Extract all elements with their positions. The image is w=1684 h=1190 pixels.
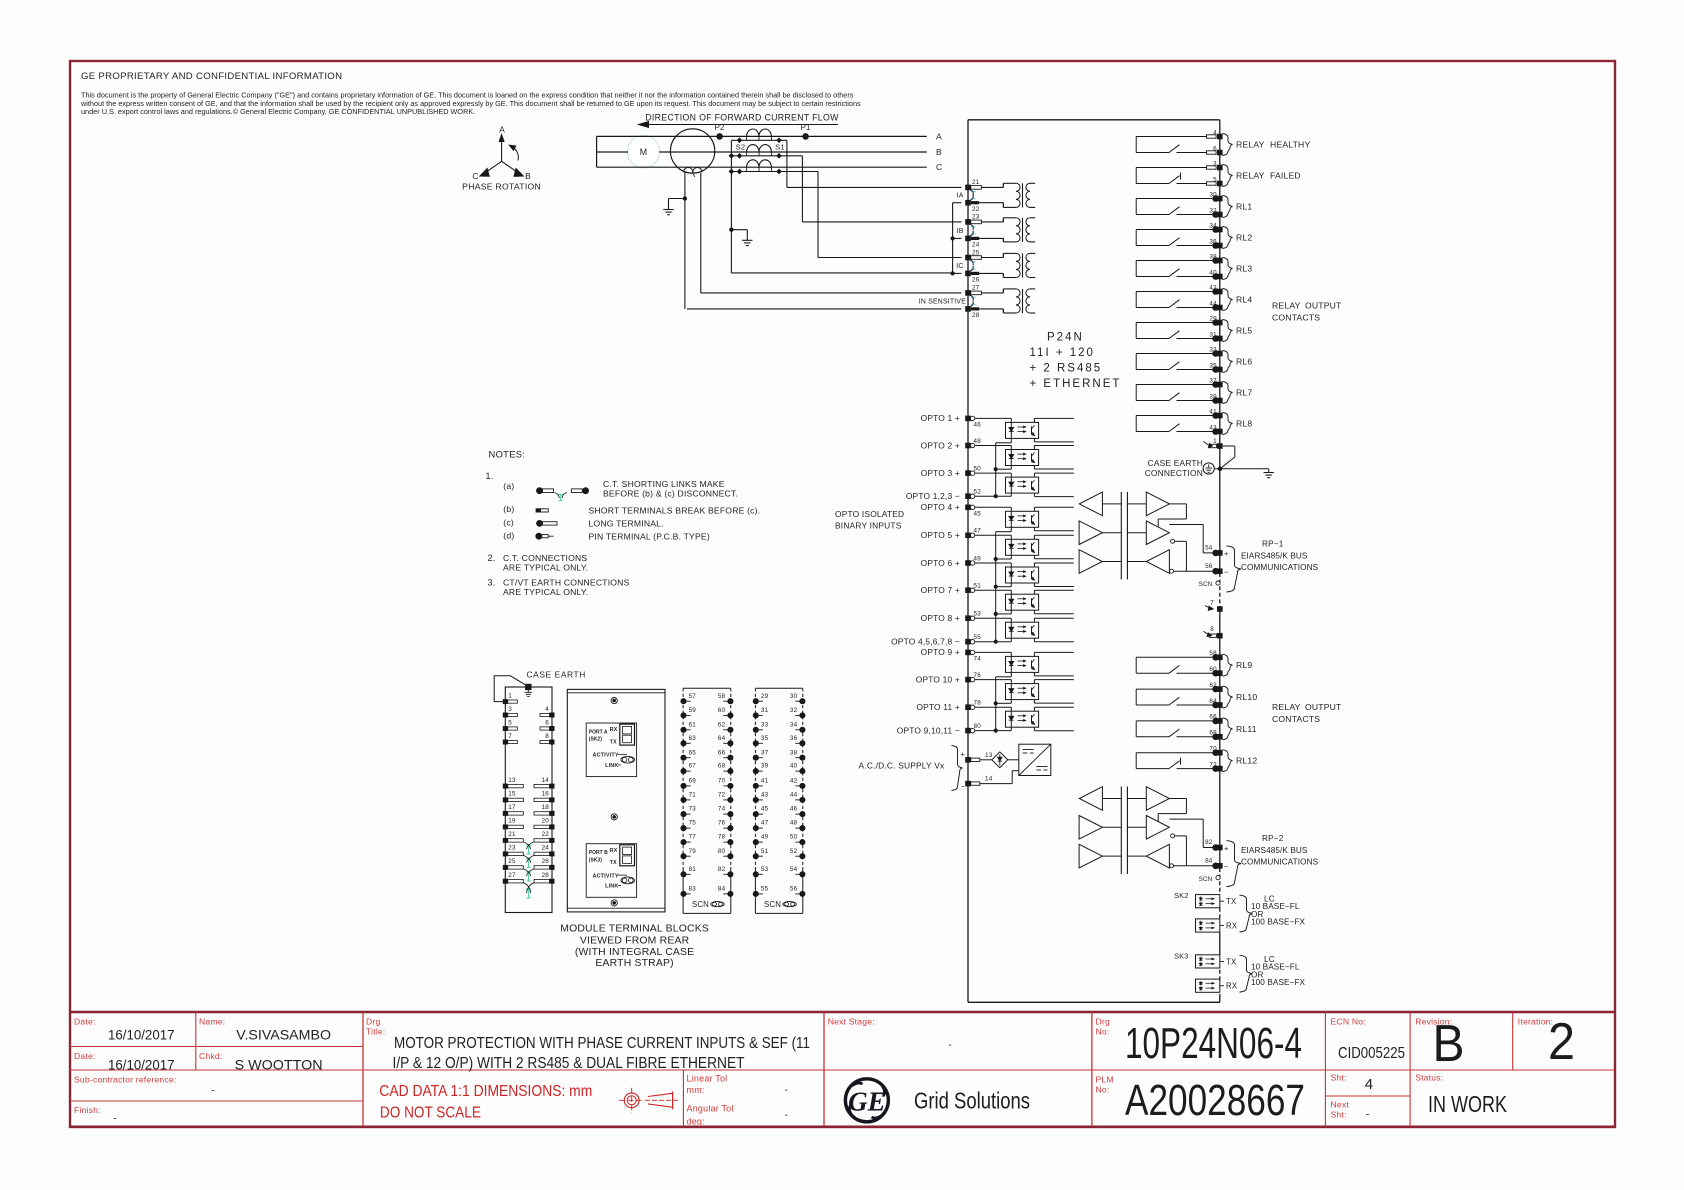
svg-text:Linear Tol: Linear Tol xyxy=(687,1074,728,1084)
svg-text:64: 64 xyxy=(718,735,726,742)
svg-text:56: 56 xyxy=(1205,563,1213,570)
terminal 53 xyxy=(965,615,971,621)
svg-text:48: 48 xyxy=(974,438,982,445)
svg-text:4: 4 xyxy=(1213,129,1217,136)
svg-text:EIARS485/K BUS: EIARS485/K BUS xyxy=(1241,552,1308,561)
panel screw 1 xyxy=(611,698,617,704)
svg-text:-: - xyxy=(113,1114,117,1125)
svg-text:BEFORE (b) & (c) DISCONNECT.: BEFORE (b) & (c) DISCONNECT. xyxy=(603,488,738,498)
svg-text:23: 23 xyxy=(972,214,980,221)
wire IN b xyxy=(687,308,962,310)
junction core CT earth xyxy=(683,197,686,200)
svg-text:6: 6 xyxy=(1213,145,1217,152)
svg-text:C.T. CONNECTIONS: C.T. CONNECTIONS xyxy=(503,553,587,563)
contact RELAY HEALTHY (4/6) xyxy=(1135,137,1137,153)
rear pin 13 xyxy=(503,784,508,789)
terminal 49 xyxy=(965,560,971,566)
svg-text:82: 82 xyxy=(718,866,726,873)
svg-text:BINARY INPUTS: BINARY INPUTS xyxy=(835,521,902,531)
rear pin 5 xyxy=(503,726,508,731)
svg-text:EARTH STRAP): EARTH STRAP) xyxy=(595,958,673,969)
CT transformer T1 xyxy=(1002,183,1004,187)
svg-text:71: 71 xyxy=(689,792,697,799)
svg-text:VIEWED FROM REAR: VIEWED FROM REAR xyxy=(580,936,690,947)
svg-text:P2: P2 xyxy=(715,123,725,132)
svg-text:3.: 3. xyxy=(488,578,496,588)
opto bank2 negative bus xyxy=(1010,527,1012,531)
svg-text:20: 20 xyxy=(542,818,550,825)
opto bank3 negative bus xyxy=(1010,672,1012,676)
svg-text:31: 31 xyxy=(761,707,769,714)
CT transformer T3 xyxy=(1002,253,1004,257)
svg-text:28: 28 xyxy=(542,872,550,879)
svg-text:(SK2): (SK2) xyxy=(589,737,602,743)
T4 lead steps xyxy=(1002,289,1004,293)
svg-text:62: 62 xyxy=(718,721,726,728)
svg-text:56: 56 xyxy=(790,886,798,893)
svg-text:OPTO 10 +: OPTO 10 + xyxy=(916,674,960,684)
svg-text:7: 7 xyxy=(1210,600,1214,607)
svg-text:53: 53 xyxy=(761,866,769,873)
CT C secondary xyxy=(731,171,818,173)
svg-text:35: 35 xyxy=(1209,362,1217,369)
svg-text:11I + 120: 11I + 120 xyxy=(1030,347,1095,359)
rear pin 3 xyxy=(503,713,508,718)
svg-text:30: 30 xyxy=(1209,191,1217,198)
terminal 26 xyxy=(965,271,971,277)
junction return 26 xyxy=(951,272,954,275)
supply brace xyxy=(952,746,963,791)
optocoupler OPTO5 xyxy=(975,534,1011,536)
svg-text:68: 68 xyxy=(718,763,726,770)
CT shorting link IA xyxy=(972,192,974,199)
svg-text:C: C xyxy=(472,171,478,181)
svg-text:53: 53 xyxy=(974,611,982,618)
svg-text:21: 21 xyxy=(972,179,980,186)
PORT A (SK2) xyxy=(586,723,636,777)
svg-text:MOTOR PROTECTION WITH PHASE CU: MOTOR PROTECTION WITH PHASE CURRENT INPU… xyxy=(394,1035,810,1052)
svg-text:1.: 1. xyxy=(486,471,494,481)
svg-text:24: 24 xyxy=(542,845,550,852)
svg-text:Date:: Date: xyxy=(74,1017,96,1027)
svg-text:64: 64 xyxy=(1209,698,1217,705)
terminal 45 xyxy=(965,505,971,511)
svg-text:RELAY HEALTHY: RELAY HEALTHY xyxy=(1236,140,1310,150)
optocoupler OPTO6 xyxy=(975,562,1011,564)
CT shorting link IN SENSITIVE xyxy=(972,297,974,304)
optocoupler OPTO1 xyxy=(975,417,1011,419)
svg-text:(d): (d) xyxy=(503,531,514,541)
svg-text:ACTIVITY: ACTIVITY xyxy=(593,873,619,879)
wire phase A xyxy=(597,135,927,137)
svg-text:7: 7 xyxy=(508,733,512,740)
motor feeder bus xyxy=(596,136,598,167)
svg-text:-: - xyxy=(962,781,965,791)
optocoupler OPTO9 xyxy=(975,651,1011,653)
terminal 55 xyxy=(965,639,971,645)
svg-text:P24N: P24N xyxy=(1047,332,1084,344)
rear pin 4 xyxy=(550,713,555,718)
terminal 22 xyxy=(965,200,971,206)
svg-text:COMMUNICATIONS: COMMUNICATIONS xyxy=(1241,563,1319,572)
svg-text:LONG TERMINAL.: LONG TERMINAL. xyxy=(589,519,664,529)
svg-text:80: 80 xyxy=(974,723,982,730)
svg-text:14: 14 xyxy=(542,777,550,784)
svg-text:30: 30 xyxy=(790,693,798,700)
svg-text:65: 65 xyxy=(689,749,697,756)
svg-text:CASE EARTH: CASE EARTH xyxy=(1148,458,1203,468)
marker P1 xyxy=(803,134,809,140)
svg-text:CONTACTS: CONTACTS xyxy=(1272,714,1320,724)
svg-text:46: 46 xyxy=(974,422,982,429)
svg-text:44: 44 xyxy=(790,792,798,799)
contact RL10 (62/64) xyxy=(1135,689,1137,705)
svg-text:RX: RX xyxy=(610,848,618,854)
wire IC xyxy=(817,172,819,258)
svg-text:83: 83 xyxy=(689,886,697,893)
terminal 13 14 xyxy=(965,757,971,763)
rear pin 14 xyxy=(550,784,555,789)
svg-text:13: 13 xyxy=(508,777,516,784)
case earth connection xyxy=(1203,463,1214,474)
svg-text:59: 59 xyxy=(689,707,697,714)
svg-text:−: − xyxy=(1224,862,1229,871)
CT A secondary xyxy=(731,139,787,141)
svg-text:GE: GE xyxy=(848,1087,886,1117)
svg-text:IN SENSITIVE: IN SENSITIVE xyxy=(919,299,966,306)
svg-text:+ 2 RS485: + 2 RS485 xyxy=(1030,363,1103,375)
svg-text:22: 22 xyxy=(972,206,980,213)
svg-text:SCN: SCN xyxy=(1199,581,1213,588)
svg-text:CID005225: CID005225 xyxy=(1338,1045,1405,1062)
svg-text:RL12: RL12 xyxy=(1236,756,1257,766)
optocoupler OPTO7 xyxy=(975,589,1011,591)
svg-text:CASE EARTH: CASE EARTH xyxy=(527,670,586,680)
svg-text:Drg: Drg xyxy=(1096,1017,1110,1027)
svg-text:SCN: SCN xyxy=(692,900,709,909)
phase CT B primary xyxy=(747,145,759,152)
RS485 port RP-2 xyxy=(1079,787,1102,811)
svg-text:32: 32 xyxy=(790,707,798,714)
svg-text:4: 4 xyxy=(545,706,549,713)
T2 lead steps xyxy=(1002,218,1004,222)
wire IB xyxy=(801,156,803,222)
svg-text:RL4: RL4 xyxy=(1236,295,1252,305)
svg-text:I/P & 12 O/P) WITH 2 RS485 & D: I/P & 12 O/P) WITH 2 RS485 & DUAL FIBRE … xyxy=(393,1055,745,1072)
svg-text:81: 81 xyxy=(689,866,697,873)
svg-text:27: 27 xyxy=(508,872,516,879)
PORT B (SK3) xyxy=(586,844,636,898)
svg-text:26: 26 xyxy=(542,858,550,865)
svg-text:57: 57 xyxy=(689,693,697,700)
contact RL3 (38/40) xyxy=(1135,261,1137,277)
svg-text:16/10/2017: 16/10/2017 xyxy=(108,1027,175,1043)
svg-text:OPTO 4 +: OPTO 4 + xyxy=(921,502,960,512)
svg-text:58: 58 xyxy=(718,693,726,700)
svg-text:RELAY OUTPUT: RELAY OUTPUT xyxy=(1272,301,1342,311)
S2 bus earth branch xyxy=(731,229,747,231)
svg-text:45: 45 xyxy=(761,806,769,813)
svg-text:16: 16 xyxy=(542,791,550,798)
svg-text:ARE TYPICAL ONLY.: ARE TYPICAL ONLY. xyxy=(503,563,588,573)
svg-text:68: 68 xyxy=(1209,730,1217,737)
svg-text:S2: S2 xyxy=(736,143,746,152)
svg-text:37: 37 xyxy=(1209,377,1217,384)
svg-text:42: 42 xyxy=(1209,284,1217,291)
rear pin 7 xyxy=(503,740,508,745)
wire phase C xyxy=(597,166,927,168)
opto bank1 negative bus xyxy=(1010,438,1012,442)
svg-text:RL5: RL5 xyxy=(1236,326,1252,336)
terminal 28 xyxy=(965,306,971,312)
core balance CT xyxy=(670,129,714,173)
svg-text:69: 69 xyxy=(689,778,697,785)
svg-text:55: 55 xyxy=(974,634,982,641)
contact RL6 (33/35) xyxy=(1135,354,1137,370)
optocoupler OPTO10 xyxy=(975,679,1011,681)
rear earth link 4 xyxy=(528,889,530,898)
svg-text:76: 76 xyxy=(718,820,726,827)
svg-text:100 BASE−FX: 100 BASE−FX xyxy=(1251,978,1306,987)
rear block A outline xyxy=(505,687,552,913)
svg-text:Grid Solutions: Grid Solutions xyxy=(914,1088,1030,1114)
svg-text:39: 39 xyxy=(761,763,769,770)
svg-text:LINK: LINK xyxy=(605,884,618,890)
svg-text:25: 25 xyxy=(508,858,516,865)
svg-text:OPTO 3 +: OPTO 3 + xyxy=(921,468,960,478)
rear earth link 3 xyxy=(528,872,530,881)
svg-text:Drg: Drg xyxy=(366,1017,380,1027)
svg-text:74: 74 xyxy=(974,656,982,663)
terminal 51 xyxy=(965,587,971,593)
contact RL9 (58/60) xyxy=(1135,657,1137,673)
rear pin 20 xyxy=(550,824,555,829)
svg-text:66: 66 xyxy=(1209,714,1217,721)
svg-text:TX: TX xyxy=(1226,897,1237,906)
terminal 46 xyxy=(965,416,971,422)
contact RL5 (29/31) xyxy=(1135,323,1137,339)
contact RL4 (42/44) xyxy=(1135,292,1137,308)
phase CT C primary xyxy=(747,160,759,167)
svg-text:RL3: RL3 xyxy=(1236,264,1252,274)
svg-text:75: 75 xyxy=(689,820,697,827)
svg-text:RP−2: RP−2 xyxy=(1262,834,1284,843)
optocoupler OPTO2 xyxy=(975,445,1011,447)
svg-text:PORT A: PORT A xyxy=(589,729,608,735)
earth (S2 bus) xyxy=(742,239,752,241)
marker P2 xyxy=(717,134,723,140)
terminal 21 xyxy=(965,185,971,191)
svg-text:B: B xyxy=(936,147,942,157)
svg-text:Status:: Status: xyxy=(1415,1073,1443,1083)
svg-text:OPTO 8 +: OPTO 8 + xyxy=(921,613,960,623)
svg-text:A20028667: A20028667 xyxy=(1125,1076,1305,1125)
svg-text:No:: No: xyxy=(1096,1085,1110,1095)
svg-text:PHASE ROTATION: PHASE ROTATION xyxy=(462,182,541,192)
svg-text:16/10/2017: 16/10/2017 xyxy=(108,1057,175,1073)
svg-text:48: 48 xyxy=(790,820,798,827)
rear block C (29-56) xyxy=(755,687,802,689)
svg-text:RL1: RL1 xyxy=(1236,202,1252,212)
phase CT A primary xyxy=(747,129,759,136)
T3 lead steps xyxy=(1002,253,1004,257)
svg-text:8: 8 xyxy=(545,733,549,740)
svg-text:15: 15 xyxy=(508,791,516,798)
relay case outline xyxy=(968,119,1220,121)
svg-text:ECN No:: ECN No: xyxy=(1331,1017,1366,1027)
svg-text:22: 22 xyxy=(542,831,550,838)
svg-text:28: 28 xyxy=(972,312,980,319)
svg-text:RELAY OUTPUT: RELAY OUTPUT xyxy=(1272,702,1342,712)
svg-text:SK3: SK3 xyxy=(1174,951,1188,960)
terminal 27 xyxy=(965,290,971,296)
svg-text:CONTACTS: CONTACTS xyxy=(1272,313,1320,323)
optocoupler OPTO8 xyxy=(975,617,1011,619)
svg-text:67: 67 xyxy=(689,763,697,770)
svg-text:-: - xyxy=(1366,1110,1370,1121)
svg-text:39: 39 xyxy=(1209,393,1217,400)
svg-text:CT/VT EARTH CONNECTIONS: CT/VT EARTH CONNECTIONS xyxy=(503,578,630,588)
svg-text:43: 43 xyxy=(1209,424,1217,431)
phase rotation symbol xyxy=(501,141,503,162)
svg-text:V.SIVASAMBO: V.SIVASAMBO xyxy=(236,1027,331,1043)
svg-text:2: 2 xyxy=(1548,1013,1575,1071)
terminal 50 xyxy=(965,470,971,476)
svg-text:CAD DATA 1:1 DIMENSIONS: mm: CAD DATA 1:1 DIMENSIONS: mm xyxy=(379,1083,592,1100)
svg-text:82: 82 xyxy=(1205,839,1213,846)
svg-text:1: 1 xyxy=(508,692,512,699)
rear comms panel xyxy=(567,689,665,912)
svg-text:P1: P1 xyxy=(801,123,811,132)
svg-text:Sht:: Sht: xyxy=(1331,1073,1347,1083)
svg-text:TX: TX xyxy=(610,860,617,866)
svg-text:10P24N06-4: 10P24N06-4 xyxy=(1125,1019,1302,1068)
svg-text:36: 36 xyxy=(790,735,798,742)
svg-text:CONNECTION: CONNECTION xyxy=(1145,468,1203,478)
svg-text:PLM: PLM xyxy=(1096,1075,1114,1085)
svg-text:37: 37 xyxy=(761,749,769,756)
svg-text:40: 40 xyxy=(790,763,798,770)
junction S1-A xyxy=(776,137,782,143)
S2 common bus xyxy=(730,140,732,273)
svg-text:32: 32 xyxy=(1209,207,1217,214)
svg-text:47: 47 xyxy=(974,528,982,535)
svg-text:77: 77 xyxy=(689,834,697,841)
svg-text:DO NOT SCALE: DO NOT SCALE xyxy=(380,1105,481,1122)
svg-text:41: 41 xyxy=(1209,408,1217,415)
earth (core CT) xyxy=(663,209,673,211)
svg-text:Sub-contractor reference:: Sub-contractor reference: xyxy=(74,1075,176,1085)
svg-text:+: + xyxy=(1224,549,1229,558)
rear pin 22 xyxy=(550,838,555,843)
svg-text:(WITH INTEGRAL CASE: (WITH INTEGRAL CASE xyxy=(575,947,694,958)
T1 lead steps xyxy=(1002,183,1004,187)
svg-text:18: 18 xyxy=(542,804,550,811)
rear terminal 1 (case earth stud) xyxy=(525,684,531,690)
svg-text:EIARS485/K BUS: EIARS485/K BUS xyxy=(1241,846,1308,855)
rear pin 19 xyxy=(503,824,508,829)
svg-text:TX: TX xyxy=(1226,957,1237,966)
svg-text:Angular Tol: Angular Tol xyxy=(687,1104,734,1114)
svg-text:RL2: RL2 xyxy=(1236,233,1252,243)
rear earth link 1 xyxy=(528,845,530,854)
svg-text:61: 61 xyxy=(689,721,697,728)
svg-text:40: 40 xyxy=(1209,269,1217,276)
svg-text:3: 3 xyxy=(508,706,512,713)
T3 leads xyxy=(981,257,1003,259)
svg-text:RP−1: RP−1 xyxy=(1262,540,1284,549)
svg-text:78: 78 xyxy=(974,700,982,707)
svg-text:ACTIVITY: ACTIVITY xyxy=(593,753,619,759)
svg-text:RL8: RL8 xyxy=(1236,419,1252,429)
svg-text:(b): (b) xyxy=(503,504,514,514)
junction S2-B xyxy=(737,153,743,159)
svg-text:47: 47 xyxy=(761,820,769,827)
svg-text:mm:: mm: xyxy=(687,1085,705,1095)
svg-text:41: 41 xyxy=(761,778,769,785)
rear pin 24 xyxy=(550,851,555,856)
wire IN a xyxy=(701,292,962,294)
rear pin 28 xyxy=(550,879,555,884)
T1 leads xyxy=(981,186,1003,188)
svg-text:49: 49 xyxy=(761,834,769,841)
rear pin 27 xyxy=(503,879,508,884)
svg-text:Date:: Date: xyxy=(74,1051,96,1061)
svg-text:NOTES:: NOTES: xyxy=(489,449,526,460)
svg-text:Next: Next xyxy=(1331,1100,1350,1110)
rear pin 8 xyxy=(550,740,555,745)
svg-text:24: 24 xyxy=(972,242,980,249)
svg-text:+: + xyxy=(961,750,966,759)
svg-text:34: 34 xyxy=(1209,222,1217,229)
svg-text:62: 62 xyxy=(1209,682,1217,689)
svg-text:RL6: RL6 xyxy=(1236,357,1252,367)
svg-text:-: - xyxy=(785,1085,789,1096)
terminal 78 xyxy=(965,704,971,710)
svg-text:−: − xyxy=(1224,568,1229,577)
svg-text:(a): (a) xyxy=(503,481,514,491)
svg-text:(c): (c) xyxy=(503,518,514,528)
svg-text:72: 72 xyxy=(718,792,726,799)
svg-text:3: 3 xyxy=(1213,160,1217,167)
svg-text:DIRECTION OF FORWARD CURREN: DIRECTION OF FORWARD CURRENT FLOW xyxy=(645,113,839,123)
svg-text:84: 84 xyxy=(1205,857,1213,864)
svg-text:OPTO 4,5,6,7,8 −: OPTO 4,5,6,7,8 − xyxy=(891,637,960,647)
contact RL7 (37/39) xyxy=(1135,385,1137,401)
svg-text:34: 34 xyxy=(790,721,798,728)
junction bus-C xyxy=(729,169,735,175)
svg-text:A.C./D.C. SUPPLY Vx: A.C./D.C. SUPPLY Vx xyxy=(859,761,945,771)
svg-text:-: - xyxy=(211,1086,215,1097)
terminal 74 xyxy=(965,650,971,656)
junction S2-C xyxy=(737,169,743,175)
svg-text:GE PROPRIETARY AND CONFIDENTIA: GE PROPRIETARY AND CONFIDENTIAL INFORMAT… xyxy=(81,71,342,82)
rear pin 15 xyxy=(503,797,508,802)
svg-text:17: 17 xyxy=(508,804,516,811)
svg-text:51: 51 xyxy=(761,848,769,855)
svg-text:49: 49 xyxy=(974,555,982,562)
rear pin 25 xyxy=(503,865,508,870)
svg-text:45: 45 xyxy=(974,511,982,518)
svg-text:OPTO 1,2,3 −: OPTO 1,2,3 − xyxy=(906,491,960,501)
CT return bus xyxy=(952,203,954,274)
svg-text:79: 79 xyxy=(689,848,697,855)
title block grid xyxy=(70,1011,1615,1014)
svg-text:M: M xyxy=(640,147,648,157)
terminal 76 xyxy=(965,677,971,683)
svg-text:S1: S1 xyxy=(775,143,785,152)
svg-text:50: 50 xyxy=(790,834,798,841)
